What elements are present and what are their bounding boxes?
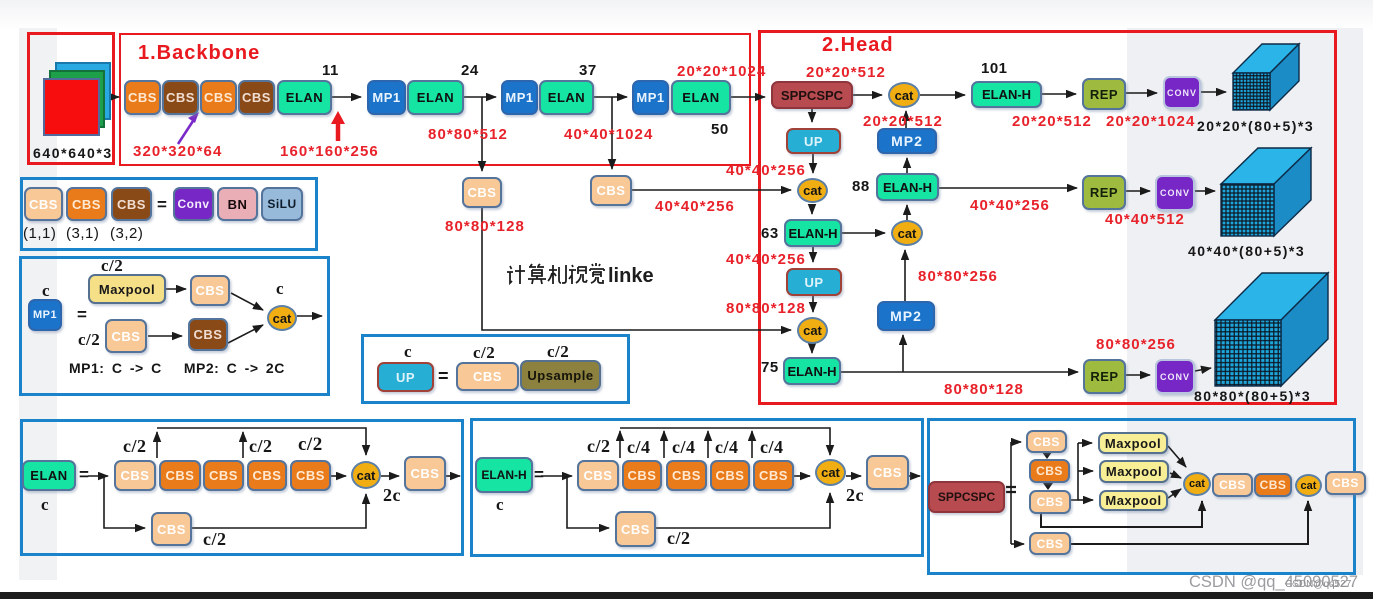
label 37 — [579, 63, 597, 78]
box CBS after cat1 — [1212, 473, 1253, 497]
label 80*80*128 mid — [445, 219, 525, 234]
wire cbs-orange down sppc-legend — [1043, 482, 1053, 490]
box CBS last sppc-legend — [1325, 471, 1366, 495]
label 2c elan-legend — [383, 486, 401, 504]
wire REP2 to CONV2 — [1126, 190, 1150, 192]
node cat20 — [888, 82, 920, 108]
background left gray band — [19, 28, 57, 580]
box UP legend — [377, 362, 434, 392]
label c below ELAN-H — [496, 496, 504, 513]
label c/4 b elanh-legend — [672, 438, 696, 456]
box ELAN legend — [22, 460, 76, 491]
equals legend-up — [438, 367, 449, 385]
equals legend1 — [157, 196, 167, 213]
wire spine to cbs-top sppc-legend — [1011, 441, 1021, 443]
box CBS2 — [162, 80, 199, 115]
box CBS o4 elanh-legend — [753, 460, 794, 491]
label c/4 d elanh-legend — [760, 438, 784, 456]
wire branch down to CBS-40 — [611, 97, 613, 169]
label c/2 second elan-legend — [249, 437, 273, 455]
box CBS bypass elan-legend — [151, 512, 192, 546]
label 63 — [761, 226, 779, 241]
box Maxpool3 sppc-legend — [1099, 490, 1168, 511]
box ELAN-H legend — [475, 457, 533, 493]
box REP1 — [1082, 78, 1126, 110]
wire cat40mid up to ELANH88 — [906, 205, 908, 220]
wire CBS-40 to cat40top — [632, 189, 791, 191]
wire maxpool to CBS legend2 — [166, 288, 186, 290]
label (1,1) — [23, 226, 56, 241]
label c/2 bypass elanh-legend — [667, 529, 691, 547]
box CBS o1 elan-legend — [159, 460, 201, 491]
wire bottom bypass elanh-legend — [656, 493, 830, 528]
label 40*40*256 mid-head — [970, 198, 1050, 213]
wire cbs out elan-legend — [446, 475, 460, 477]
box CBS p1 elanh-legend — [577, 460, 619, 491]
wire CONV2 to cube2 — [1195, 190, 1215, 192]
label c/2 third elan-legend — [298, 435, 323, 454]
node cat2 sppc-legend — [1295, 474, 1322, 497]
box CBS o2 elan-legend — [203, 460, 244, 491]
label c/2 first elanh-legend — [587, 437, 611, 455]
box CBS orange2 sppc-legend — [1254, 473, 1292, 497]
frame head — [758, 30, 1337, 405]
box CBS bottom legend2 — [105, 319, 147, 353]
box REP3 — [1083, 359, 1126, 394]
label 75 — [761, 360, 779, 375]
wire cat to cbs elanh-legend — [846, 475, 861, 477]
label 80*80*128 bottom — [944, 382, 1024, 397]
wire brown to cat diag legend2 — [228, 325, 263, 343]
wire up arrow2 elan-legend — [242, 432, 244, 458]
wire cbs4 to cat elanh-legend — [794, 475, 810, 477]
wire MP2a up to cat20 — [905, 111, 907, 128]
box CONV2 — [1155, 175, 1195, 211]
box CONV1 — [1163, 76, 1201, 109]
label c/2 first elan-legend — [123, 437, 147, 455]
wire up arrow1 elanh-legend — [619, 431, 621, 458]
box CBS p1 elan-legend — [114, 460, 156, 491]
wire spine to cbs-bottom sppc-legend — [1011, 543, 1024, 545]
wire maxpool spine sppc-legend — [1071, 443, 1078, 500]
label 20*20*512 row2 b — [1012, 114, 1092, 129]
label 20*20*512 above sppcspc — [806, 65, 886, 80]
label (3,2) — [110, 226, 143, 241]
purple arrow 320-320-64 — [178, 112, 199, 144]
frame legend-mp — [19, 256, 330, 396]
box CBS o3 elanh-legend — [710, 460, 750, 491]
equals sign sppc-legend — [1006, 487, 1016, 492]
label MP1 MP2 caption — [69, 361, 285, 375]
wire UP1 down to cat40top — [812, 154, 814, 173]
box CBS brown legend1 — [111, 187, 152, 221]
watermark cjk — [505, 262, 675, 288]
box CBS o3 elan-legend — [247, 460, 287, 491]
label 20*20*512 row2 a — [863, 114, 943, 129]
wire bottom branch elanh-legend — [567, 476, 609, 528]
input image green layer — [49, 70, 105, 128]
wire MP2b up to cat40mid — [904, 250, 906, 301]
box CBS bypass sppc-legend — [1029, 532, 1071, 555]
wire cbs4 to cat elan-legend — [331, 475, 346, 477]
box ELAN-H 63 — [784, 219, 842, 247]
wire maxpool2 to cat diag — [1170, 473, 1181, 478]
watermark csdn small — [1285, 580, 1354, 590]
wire ELAN24 to MP1b — [464, 96, 496, 98]
red arrow 160-160-256 — [331, 111, 345, 141]
label 160*160*256 — [280, 144, 379, 159]
wire up arrow2 elanh-legend — [663, 431, 665, 458]
box ELAN 11 — [277, 80, 332, 115]
box CBS mid sppc-legend — [1029, 490, 1071, 514]
box Maxpool legend2 — [88, 274, 166, 304]
box MP1 c — [632, 80, 669, 115]
box MP2 a — [877, 128, 937, 154]
wire SPPCSPC to cat20 — [853, 94, 882, 96]
wire branch up to MP2b — [902, 335, 904, 372]
box ELAN-H 75 — [783, 357, 841, 385]
wire CBS to CBS brown legend2 — [148, 335, 182, 337]
watermark csdn large — [1189, 574, 1358, 591]
equals legend-elan — [79, 466, 89, 483]
box ELAN 37 — [539, 80, 594, 115]
equals legend-elanh — [534, 466, 544, 483]
wire cat out legend2 — [297, 315, 322, 317]
wire REP3 to CONV3 — [1126, 374, 1150, 376]
wire eq to CBS elanh-legend — [541, 475, 572, 477]
label 80*80*256 right — [1096, 337, 1176, 352]
wire CONV3 to cube3 — [1195, 368, 1211, 371]
box ELAN-H 101 — [971, 81, 1042, 108]
wire cbs-top down sppc-legend — [1042, 451, 1052, 459]
box Maxpool2 sppc-legend — [1099, 460, 1169, 483]
wire to maxpool1 sppc-legend — [1078, 442, 1092, 444]
box SiLU — [261, 187, 303, 221]
node cat40mid — [891, 220, 923, 246]
wire ELANH63 down to UP2 — [812, 247, 814, 262]
label 20*20*1024 row2 — [1106, 114, 1195, 129]
node cat elan-legend — [351, 461, 381, 489]
label c/4 c elanh-legend — [715, 438, 739, 456]
label c above UP — [404, 343, 412, 360]
wire CBS to cat diag legend2 — [231, 293, 263, 310]
label c/2 maxpool — [101, 257, 123, 274]
wire cat40top down to ELANH63 — [811, 204, 813, 214]
box CBS orange legend1 — [66, 187, 107, 221]
box CBS3 — [200, 80, 237, 115]
label 24 — [461, 63, 479, 78]
label 20*20*1024 top — [677, 64, 766, 79]
wire ELAN11 to MP1a — [332, 96, 361, 98]
wire to maxpool3 sppc-legend — [1078, 499, 1093, 501]
box CBS bypass elanh-legend — [615, 511, 656, 547]
label 101 — [981, 61, 1008, 76]
cube 20x20 — [1228, 40, 1306, 115]
wire bypass1 sppc-legend — [1041, 501, 1202, 527]
wire CBS-80 long route to cat80 — [482, 208, 791, 330]
box CBS o4 elan-legend — [290, 460, 331, 491]
wire bypass2 sppc-legend — [1071, 501, 1308, 544]
label 80*80*128 left — [726, 301, 806, 316]
wire cat20 to ELANH101 — [920, 94, 965, 96]
wire REP1 to CONV1 — [1126, 92, 1157, 94]
frame legend-elan — [20, 419, 464, 556]
label 20*20*(80+5)*3 — [1197, 119, 1314, 133]
cube 80x80 — [1210, 268, 1334, 392]
box MP1 a — [367, 80, 406, 115]
wire bottom bypass elan-legend — [192, 494, 366, 528]
wire input to CBS1 — [110, 96, 119, 98]
wire ELAN37 to MP1c — [594, 96, 627, 98]
box CBS out elan-legend — [404, 456, 446, 491]
wire up arrow4 elanh-legend — [751, 431, 753, 458]
box BN — [217, 187, 258, 221]
svg-text:linke: linke — [608, 265, 654, 287]
box CBS top legend2 — [190, 275, 230, 306]
box CBS-40 — [590, 175, 632, 206]
node cat elanh-legend — [815, 459, 846, 486]
label c/2 upsample — [547, 343, 569, 360]
frame legend-up — [361, 334, 630, 404]
wire up arrow1 elan-legend — [156, 432, 158, 458]
wire spine sppc-legend — [1010, 442, 1012, 544]
label 80*80*512 — [428, 127, 508, 142]
box CBS top sppc-legend — [1026, 430, 1067, 453]
box SPPCSPC legend — [928, 481, 1005, 513]
box CONV3 — [1155, 359, 1195, 394]
wire cat80 down to ELANH75 — [811, 344, 813, 353]
node cat1 sppc-legend — [1183, 472, 1211, 496]
box CBS orange sppc-legend — [1029, 459, 1070, 483]
label 40*40*256 left-top — [726, 163, 806, 178]
label 320*320*64 — [133, 144, 222, 159]
wire cat to cbs elan-legend — [381, 475, 399, 477]
wire UP2 down to cat80 — [812, 296, 814, 312]
frame input-box — [27, 32, 115, 165]
wire CONV1 to cube1 — [1201, 91, 1226, 93]
wire bottom branch elan-legend — [104, 476, 145, 528]
wire ELANH101 to REP1 — [1042, 93, 1076, 95]
label c/2 cbs up-legend — [473, 344, 495, 361]
node cat legend2 — [267, 305, 297, 331]
frame legend-cbs — [20, 177, 318, 251]
title 1.Backbone — [138, 43, 260, 63]
wire ELAN50 to SPPCSPC — [731, 96, 765, 98]
background right gray band — [1127, 28, 1363, 575]
label 80*80*(80+5)*3 — [1194, 389, 1311, 403]
node cat40top — [797, 178, 828, 203]
label 88 — [852, 179, 870, 194]
wire to maxpool2 sppc-legend — [1078, 470, 1093, 472]
box CBS o2 elanh-legend — [666, 460, 707, 491]
box Maxpool1 sppc-legend — [1098, 432, 1168, 454]
wire up arrow3 elanh-legend — [707, 431, 709, 458]
box ELAN 50 — [671, 80, 731, 115]
box SPPCSPC — [771, 81, 853, 109]
wire top bypass elanh-legend — [620, 428, 830, 455]
label 11 — [322, 63, 339, 78]
label 80*80*256 mid — [918, 269, 998, 284]
label (3,1) — [66, 226, 99, 241]
box Upsample — [520, 360, 601, 391]
wire ELANH75 to REP3 — [841, 371, 1078, 373]
wire SPPCSPC down to UP1 — [811, 109, 813, 122]
wire ELANH63 to cat40mid — [842, 232, 885, 234]
label 40*40*1024 — [564, 127, 653, 142]
label c/4 a elanh-legend — [627, 438, 651, 456]
wire maxpool3 to cat diag — [1168, 489, 1181, 498]
frame backbone — [119, 33, 751, 166]
label 40*40*256 mid — [655, 199, 735, 214]
input image red layer — [43, 78, 100, 136]
box CBS out elanh-legend — [866, 455, 909, 490]
box Conv — [173, 187, 214, 221]
label 2c elanh-legend — [846, 486, 864, 504]
wire eq to CBS elan-legend — [88, 475, 108, 477]
box MP1 b — [501, 80, 538, 115]
box CBS-80 — [462, 177, 502, 208]
box CBS brown legend2 — [188, 318, 228, 351]
box MP1 legend — [28, 299, 62, 331]
background top gradient — [0, 0, 1373, 30]
node cat80 — [797, 317, 828, 344]
label c/2 lower legend2 — [78, 331, 100, 348]
box REP2 — [1082, 175, 1126, 210]
box MP2 b — [877, 301, 935, 331]
wire ELANH88 up to MP2a — [906, 158, 908, 173]
wire branch down to CBS-80 — [481, 97, 483, 171]
wire cbs out elanh-legend — [909, 475, 920, 477]
wire top bypass elan-legend — [157, 428, 366, 455]
cube 40x40 — [1216, 143, 1316, 241]
box CBS peach legend1 — [24, 187, 63, 221]
label 640*640*3 — [33, 146, 113, 160]
label c below ELAN — [41, 496, 49, 513]
box ELAN-H 88 — [876, 173, 939, 201]
input image blue layer — [55, 62, 111, 120]
equals legend2 — [77, 306, 87, 323]
frame legend-elanh — [470, 418, 924, 557]
label 50 — [711, 122, 729, 137]
title 2.Head — [822, 35, 894, 55]
label c/2 bypass elan-legend — [203, 530, 227, 548]
box CBS up-legend — [456, 362, 519, 391]
wire maxpool1 to cat diag — [1168, 446, 1186, 467]
box CBS4 — [238, 80, 275, 115]
box CBS o1 elanh-legend — [622, 460, 662, 491]
label 40*40*256 left2 — [726, 252, 806, 267]
frame legend-sppcspc — [927, 418, 1356, 575]
bottom black bar — [0, 592, 1373, 599]
wire ELANH88 to REP2 — [939, 187, 1077, 189]
label 40*40*(80+5)*3 — [1188, 244, 1305, 258]
label 40*40*512 — [1105, 212, 1185, 227]
label c above cat legend2 — [276, 280, 284, 297]
box UP1 — [786, 128, 841, 154]
box CBS1 — [124, 80, 161, 115]
box ELAN 24 — [407, 80, 464, 115]
box UP2 — [786, 268, 842, 296]
label c above MP1 — [42, 282, 50, 299]
